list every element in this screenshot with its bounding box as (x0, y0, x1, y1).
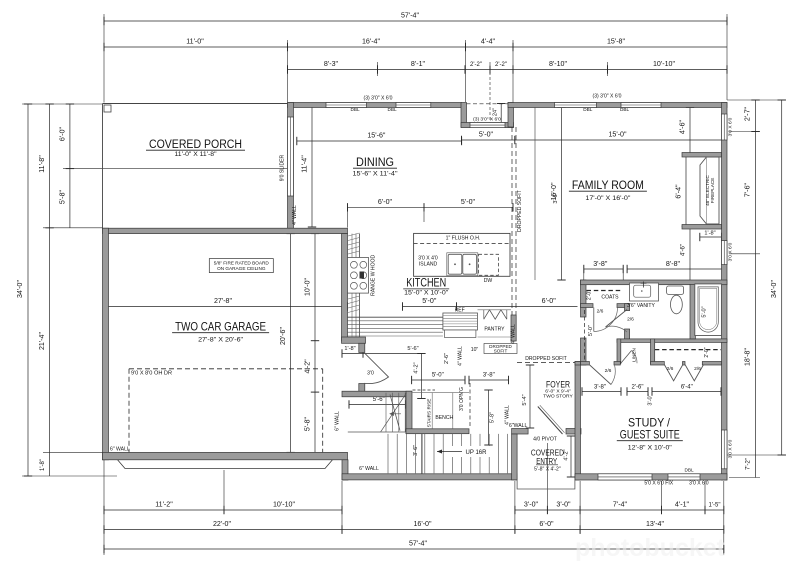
dim 24in nook depth (500, 104, 502, 124)
svg-text:27'-8" X 20'-6": 27'-8" X 20'-6" (198, 337, 244, 344)
extension line right at y477.5 (729, 477, 760, 479)
svg-text:4'-2": 4'-2" (414, 362, 420, 373)
svg-text:20'-6": 20'-6" (279, 326, 287, 345)
svg-text:34'-0": 34'-0" (16, 279, 24, 298)
extension line bottom x104 (103, 460, 105, 555)
svg-text:TWO CAR GARAGE: TWO CAR GARAGE (175, 320, 266, 334)
window family top 2 (621, 103, 661, 108)
svg-text:3'-8": 3'-8" (594, 384, 606, 390)
svg-text:11'-0" X 11'-8": 11'-0" X 11'-8" (175, 151, 218, 158)
dim 4'-2 mud rot (420, 354, 422, 399)
extension line top at x465.5 (465, 40, 467, 102)
dishwasher dashed (479, 254, 499, 275)
family room west boundary line (534, 108, 536, 281)
svg-text:2'-0": 2'-0" (587, 290, 593, 300)
dim 20'-6 garage height (290, 234, 292, 453)
dim 5'-0 dining lower (424, 206, 513, 208)
svg-text:4'-6": 4'-6" (681, 244, 687, 256)
vanity sink (634, 285, 651, 297)
extension line bottom x547.4 (546, 443, 548, 514)
svg-text:5'-0": 5'-0" (461, 198, 476, 206)
porch mid line (103, 168, 288, 170)
main stair treads (387, 434, 389, 473)
dim 57'-4 overall top (104, 20, 727, 22)
svg-text:5'-0": 5'-0" (588, 325, 594, 336)
dim 15'-6 dining width (297, 140, 462, 142)
svg-text:2/6: 2/6 (694, 366, 701, 372)
dim 15'-0 family window (515, 139, 724, 141)
wall coats bottom left stub (581, 304, 594, 308)
dim 21'-4 left garage (49, 228, 51, 453)
dim 10'-10 bottom garage (224, 509, 342, 511)
dim 15'-8 family top (513, 46, 727, 48)
svg-text:1" FLUSH O.H.: 1" FLUSH O.H. (446, 236, 481, 242)
svg-text:6'-0": 6'-0" (539, 520, 554, 528)
svg-text:3'0 X 6'0: 3'0 X 6'0 (728, 439, 734, 458)
svg-text:KITCHEN: KITCHEN (406, 276, 446, 290)
dim 11'-2 bottom garage (104, 509, 224, 511)
extension line bottom x661.5 (661, 481, 663, 514)
dim 6'-0 kitchen to foyer (513, 306, 578, 308)
svg-text:2/6: 2/6 (667, 366, 674, 372)
mud closet door diagonal (390, 395, 400, 431)
basement stair treads (385, 393, 387, 432)
bench nook lines (413, 392, 470, 394)
extension line top dashed x490 (489, 62, 491, 123)
window right study (722, 430, 728, 469)
wall mud right vertical (406, 391, 412, 433)
svg-text:4" WALL: 4" WALL (505, 405, 511, 425)
svg-text:4" WALL: 4" WALL (458, 346, 464, 366)
svg-text:3'-6": 3'-6" (413, 445, 419, 456)
covered entry slab (517, 480, 575, 489)
svg-text:TWO STORY: TWO STORY (543, 394, 573, 400)
svg-text:6'-4": 6'-4" (681, 384, 693, 390)
extension line bottom x705 (704, 481, 706, 514)
svg-text:BENCH: BENCH (435, 415, 453, 421)
svg-text:15'-0": 15'-0" (608, 131, 627, 139)
svg-text:3'0 X 6'0: 3'0 X 6'0 (689, 481, 709, 487)
svg-text:8'-1": 8'-1" (411, 60, 426, 68)
wall right exterior (722, 103, 728, 481)
dim 4'-2 entry rot (570, 436, 572, 477)
svg-text:3'0 X 6'0: 3'0 X 6'0 (728, 117, 734, 136)
bench dashes (413, 389, 436, 391)
window porch slider (288, 117, 294, 196)
svg-text:3'0: 3'0 (367, 371, 374, 377)
svg-text:5'-0": 5'-0" (422, 297, 437, 305)
coats rod dashed (587, 290, 623, 292)
extension line top at x287.5 (287, 40, 289, 102)
wall hall bottom stub mid (614, 362, 620, 366)
svg-text:ON GARAGE CEILING: ON GARAGE CEILING (217, 266, 266, 271)
svg-text:22'-0": 22'-0" (213, 520, 232, 528)
dim 6'-0 dining lower (348, 206, 425, 208)
range center knob (360, 272, 365, 279)
extension line bottom x514.9 (514, 481, 516, 534)
wall mud door lower stub (359, 384, 365, 392)
svg-text:UP 16R: UP 16R (466, 450, 488, 456)
dim 10'-10 row3 (608, 69, 728, 71)
dim 5'-8 left porch lower (69, 169, 71, 228)
svg-text:24": 24" (493, 108, 499, 116)
dropped soffit dashed foyer (517, 362, 575, 364)
door hall-study 2'6 (590, 365, 611, 385)
svg-text:6" WALL: 6" WALL (334, 411, 340, 431)
wall house bottom mud (342, 474, 517, 480)
svg-text:10'-10": 10'-10" (273, 501, 295, 509)
wall entry front stub left (512, 429, 528, 435)
svg-text:57'-4": 57'-4" (401, 12, 420, 20)
wall tub left (690, 284, 695, 339)
svg-text:6'-0": 6'-0" (542, 297, 557, 305)
svg-text:SOFIT: SOFIT (494, 349, 508, 354)
dim 16'-4 dining top (288, 46, 466, 48)
extension line top-right corner (726, 14, 728, 100)
wall linen-closet divider (651, 339, 655, 364)
svg-text:17'-0" X 16'-0": 17'-0" X 16'-0" (585, 195, 631, 202)
svg-text:4'-4": 4'-4" (481, 38, 496, 46)
svg-text:11'-0": 11'-0" (186, 38, 204, 46)
svg-text:11'-4": 11'-4" (301, 155, 309, 173)
svg-text:COATS: COATS (601, 295, 619, 301)
svg-text:5'-6": 5'-6" (407, 346, 418, 352)
extension line left at y168.6 (63, 168, 103, 170)
svg-text:5/8" FIRE RATED BOARD: 5/8" FIRE RATED BOARD (214, 260, 270, 265)
svg-text:3'-6": 3'-6" (553, 192, 559, 203)
wall closet bottom right (702, 362, 721, 366)
window dining top 2 (396, 103, 431, 108)
wall garage left (103, 228, 109, 460)
wall bath block west lower (581, 338, 587, 365)
wall closet bottom left (651, 362, 665, 366)
wall entry front stub right (566, 429, 581, 435)
svg-text:6'-4": 6'-4" (675, 184, 683, 199)
svg-text:2'-7": 2'-7" (744, 106, 752, 121)
svg-text:FOYER: FOYER (546, 380, 570, 390)
island flush oh dashed (414, 242, 510, 244)
extension line top at x607.5 (607, 62, 609, 76)
dim 18'-8 right (755, 254, 757, 455)
wall nook bottom (461, 123, 514, 128)
dim 4'-4 nook top (466, 46, 514, 48)
extension line bottom x723.8 (723, 481, 725, 555)
svg-text:RANGE W HOOD: RANGE W HOOD (371, 254, 377, 295)
svg-text:5'-6": 5'-6" (373, 397, 385, 403)
dim 8'-1 row3 (378, 69, 466, 71)
extension line left at y227.8 (43, 227, 103, 229)
svg-text:LINEN: LINEN (632, 348, 637, 362)
dim 8'-3 row3 (288, 69, 378, 71)
svg-text:FIREPLACE: FIREPLACE (710, 178, 715, 204)
dim 1'-8 left apron (49, 452, 51, 476)
extension x623.2 to wall (622, 269, 624, 280)
dim 7'-4 bottom study (580, 509, 661, 511)
svg-text:6" WALL: 6" WALL (110, 447, 130, 453)
wall entry left vertical (512, 434, 517, 480)
svg-text:3'-0": 3'-0" (556, 501, 571, 509)
dim 3'-0 bottom entry a (515, 509, 548, 511)
wall mud top (342, 391, 412, 397)
window nook (470, 123, 505, 128)
svg-text:3'-0": 3'-0" (648, 394, 654, 405)
wall foyer west opening stub (575, 362, 581, 366)
wall bath block west upper (581, 280, 587, 317)
door coats 2'6 (593, 308, 595, 332)
window family top 1 (555, 103, 597, 108)
window study bottom 1 (598, 474, 652, 480)
extension line right at y455 (727, 454, 786, 456)
dashed hall line (584, 310, 586, 361)
svg-text:3'-8": 3'-8" (593, 260, 608, 268)
dropped soffit boxed label (484, 344, 517, 354)
dim 4'-6 family right lower (689, 227, 691, 281)
up 16r box (452, 446, 492, 457)
svg-text:3'0 X 6'0: 3'0 X 6'0 (728, 242, 734, 261)
dim 34'-0 right overall (781, 100, 783, 455)
dim 2'-6 linen (627, 391, 648, 393)
fridge (443, 313, 478, 330)
wall foyer-study west (575, 362, 581, 480)
svg-text:15'-6" X 11'-4": 15'-6" X 11'-4" (353, 170, 399, 177)
toilet bowl (671, 295, 683, 314)
svg-text:4/0 PIVOT: 4/0 PIVOT (533, 437, 557, 443)
fireplace stub lower (682, 225, 722, 230)
svg-text:4'-6": 4'-6" (679, 119, 687, 134)
dim 16'-0 bottom (342, 529, 515, 531)
wall garage bottom (103, 452, 348, 459)
dim 27'-8 garage width (108, 306, 348, 308)
svg-text:2/6: 2/6 (605, 368, 612, 374)
svg-text:10'-10": 10'-10" (653, 60, 675, 68)
wall bench bottom (406, 429, 469, 434)
svg-text:7'-4": 7'-4" (613, 501, 628, 509)
svg-text:1'-8": 1'-8" (40, 459, 46, 471)
mud closet inner line (348, 431, 406, 433)
dim 11'-8 left porch (49, 104, 51, 228)
wall garage top (103, 228, 348, 233)
counter hatch above range (348, 233, 360, 236)
wall porch right (288, 103, 294, 234)
svg-text:DBL: DBL (620, 107, 630, 112)
svg-text:DBL: DBL (684, 468, 694, 473)
svg-text:4" WALL: 4" WALL (292, 205, 298, 225)
svg-text:8'-10": 8'-10" (549, 60, 568, 68)
svg-text:10": 10" (471, 347, 479, 353)
svg-text:DW: DW (484, 278, 493, 284)
svg-text:1'-8": 1'-8" (344, 346, 355, 352)
tub (695, 284, 722, 336)
dim 1'-8 mud hall (342, 353, 363, 355)
svg-text:5'-8": 5'-8" (303, 416, 311, 431)
wall coats-bath divider lower (625, 329, 630, 341)
svg-text:ISLAND: ISLAND (419, 262, 438, 268)
svg-text:2/6: 2/6 (597, 309, 604, 315)
svg-text:4'-2": 4'-2" (564, 449, 570, 460)
faint watermark (575, 534, 726, 562)
closet bifold left (664, 365, 683, 381)
dim 4'-1 bottom study (662, 509, 706, 511)
door bath 2'6 (606, 310, 628, 328)
svg-text:3'-0": 3'-0" (524, 501, 539, 509)
svg-text:12'-8" X 10'-0": 12'-8" X 10'-0" (628, 445, 673, 452)
svg-text:(3) 3'0" X 6'0: (3) 3'0" X 6'0 (364, 96, 393, 102)
garage door dashed outline (129, 368, 323, 370)
dim 22'-0 bottom (104, 529, 342, 531)
extension line bottom x342 (341, 481, 343, 534)
extension line top-left corner (103, 14, 105, 103)
window study bottom 2 (668, 474, 700, 480)
dim 3'-0 bottom entry b (547, 509, 580, 511)
dim 3'-8 bath hall (582, 391, 621, 393)
svg-text:8'-8": 8'-8" (666, 260, 681, 268)
svg-text:(3) 3'0" X 6'0: (3) 3'0" X 6'0 (593, 94, 622, 100)
dim 2'-7 right (755, 100, 757, 132)
svg-text:15'-0" X 10'-0": 15'-0" X 10'-0" (404, 290, 449, 297)
svg-text:34'-0": 34'-0" (770, 279, 778, 298)
svg-text:2'-6": 2'-6" (632, 384, 644, 390)
porch corner post (104, 105, 111, 112)
vanity counter (630, 283, 659, 301)
dropped soffit dashed stairs (469, 383, 471, 428)
svg-text:(3) 3'0" X 6'0: (3) 3'0" X 6'0 (473, 117, 501, 123)
extension line right at y100 (727, 99, 786, 101)
door linen (621, 351, 632, 364)
svg-text:2'-0": 2'-0" (704, 347, 710, 357)
pantry area lines (478, 309, 512, 311)
dim 3'-8 mud (469, 379, 509, 381)
mud closet arrow (390, 412, 401, 415)
svg-text:6"WALL: 6"WALL (509, 423, 527, 429)
dim 7'-6 right (755, 132, 757, 254)
porch left edge (102, 104, 104, 230)
garage apron (118, 460, 333, 469)
svg-text:5'-4": 5'-4" (522, 394, 528, 405)
svg-text:2/6: 2/6 (627, 317, 634, 323)
svg-text:21'-4": 21'-4" (38, 331, 46, 350)
svg-text:6" WALL: 6" WALL (359, 466, 379, 472)
dim 13'-4 bottom (580, 529, 724, 531)
up 16r arrow (437, 451, 462, 453)
extension line left at y476 (22, 475, 117, 477)
svg-text:2'-6": 2'-6" (444, 353, 450, 364)
dim 5'-8 garage right (314, 392, 316, 452)
extension line top at x377.5 (377, 62, 379, 76)
dim 8'-8 family south (627, 268, 727, 270)
toilet tank (667, 286, 684, 294)
dim 1'-5 bottom study (705, 509, 724, 511)
svg-text:13'-4": 13'-4" (646, 520, 665, 528)
svg-text:27'-8": 27'-8" (214, 297, 233, 305)
svg-text:2'-2": 2'-2" (495, 62, 507, 68)
extension x583.8 to wall (583, 269, 585, 280)
stair divider wall (421, 433, 423, 473)
svg-text:3'-8": 3'-8" (483, 373, 495, 379)
svg-text:3'0 OPN'G: 3'0 OPN'G (459, 387, 465, 411)
dashed line across nook (467, 103, 509, 105)
wall coats bottom right stub (617, 304, 629, 308)
svg-text:PANTRY: PANTRY (484, 327, 505, 333)
window right family 1 (722, 114, 728, 140)
front pivot door (538, 407, 563, 435)
kitchen counter west (359, 234, 361, 337)
wall nook right (508, 103, 514, 128)
dropped soffit dashed pair family (511, 127, 513, 315)
wall dining top (288, 103, 462, 108)
extension line left at y452.4 (43, 451, 103, 453)
island sink double (448, 254, 462, 274)
wall kitchen west (342, 234, 348, 341)
wall closet bottom mid (683, 362, 686, 366)
svg-text:4" WALL: 4" WALL (511, 324, 517, 344)
wall coats-bath divider upper (625, 304, 630, 311)
wall bath block top (581, 280, 728, 285)
extension line right at y253.8 (729, 253, 760, 255)
svg-text:1'-8": 1'-8" (704, 231, 715, 237)
porch top edge (103, 103, 288, 105)
fridge lower (445, 330, 476, 338)
dim 3'-8 family south (584, 268, 623, 270)
wall nook left (461, 103, 467, 128)
svg-text:GUEST SUITE: GUEST SUITE (620, 428, 680, 442)
basement stair diagonal (381, 393, 407, 432)
svg-text:9'0 X 8'0 OH DR: 9'0 X 8'0 OH DR (131, 371, 172, 377)
svg-text:11'-8": 11'-8" (38, 155, 46, 173)
wall garage east lower (342, 460, 348, 480)
svg-text:5'-8" X 4'-2": 5'-8" X 4'-2" (534, 467, 561, 473)
svg-text:5'-8": 5'-8" (59, 189, 67, 204)
extension line bottom x580.1 (579, 481, 581, 534)
wall hall bottom stub left (581, 362, 590, 366)
extension line right at y131.5 (729, 131, 760, 133)
svg-text:5'-0": 5'-0" (479, 131, 494, 139)
svg-text:6'-0": 6'-0" (378, 198, 393, 206)
dim 5'-6 mud top (363, 353, 422, 355)
fireplace body (700, 157, 719, 224)
svg-text:15'-8": 15'-8" (607, 38, 626, 46)
dim 5'-4 foyer rot (529, 365, 531, 428)
wall mud door upper stub (359, 343, 365, 352)
dim 10'-0 garage right (314, 234, 316, 341)
svg-text:4'-1": 4'-1" (675, 501, 690, 509)
range (348, 258, 369, 294)
svg-text:REF: REF (455, 308, 465, 314)
svg-text:DBL: DBL (583, 107, 593, 112)
dim 5'-6 closet (349, 403, 406, 405)
dim 16'-0 family height (561, 108, 563, 281)
wall bath mid horizontal (617, 339, 727, 343)
svg-text:57'-4": 57'-4" (409, 540, 428, 548)
dim 1'-8 below fireplace (700, 236, 722, 238)
door garage-mud 3'0 (364, 353, 388, 384)
svg-text:5'-0": 5'-0" (432, 373, 444, 379)
dim 4'-6 family right upper (689, 108, 691, 155)
wall linen left (617, 339, 621, 364)
wall family top (508, 103, 727, 108)
svg-text:2'-2": 2'-2" (470, 62, 482, 68)
svg-text:FAMILY ROOM: FAMILY ROOM (572, 178, 644, 192)
svg-text:1'-5": 1'-5" (709, 503, 721, 509)
closet bifold right (685, 365, 704, 381)
svg-text:16'-4": 16'-4" (362, 38, 381, 46)
svg-text:ENTRY: ENTRY (536, 456, 557, 466)
svg-text:10'-0": 10'-0" (303, 277, 311, 296)
svg-text:16'-0": 16'-0" (413, 520, 432, 528)
svg-text:photobucket: photobucket (575, 534, 726, 562)
svg-text:STAIRS RISE: STAIRS RISE (427, 399, 432, 428)
svg-text:DBL: DBL (387, 107, 397, 112)
dim 5'-0 mud (412, 379, 465, 381)
